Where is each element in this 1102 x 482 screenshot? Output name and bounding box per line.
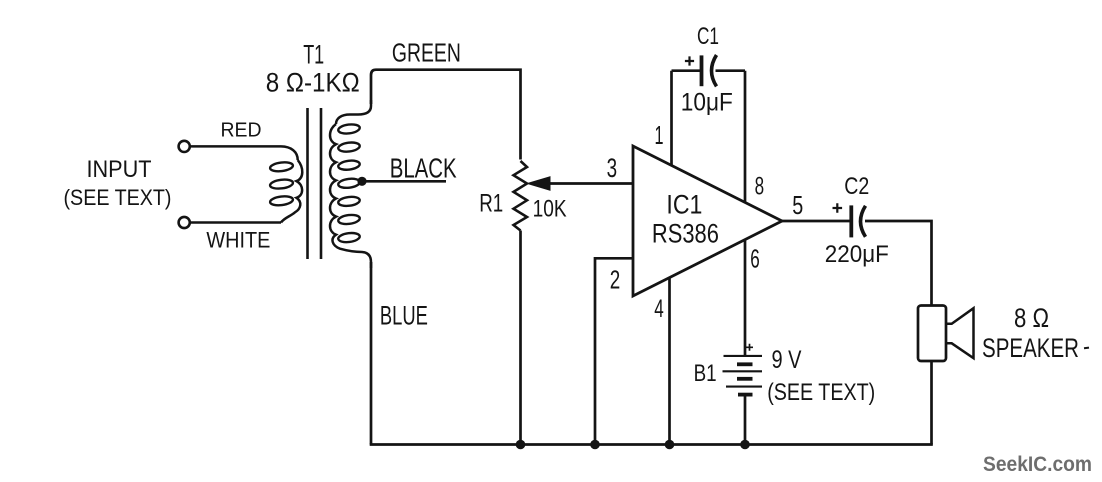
junction (R1 to rail) <box>516 440 526 450</box>
pin 4 label <box>654 295 664 323</box>
transformer T1 primary winding <box>270 146 303 222</box>
input terminal J1 (top) <box>179 141 190 152</box>
svg-text:2: 2 <box>610 265 621 295</box>
svg-text:IC1: IC1 <box>666 189 702 219</box>
label BLACK <box>390 153 457 184</box>
svg-text:(SEE TEXT): (SEE TEXT) <box>767 379 875 406</box>
pin 1 wire <box>670 71 673 166</box>
wire (speaker to ground rail) <box>930 361 933 445</box>
capacitor C1 plates <box>702 55 717 86</box>
label (SEE TEXT) <box>767 379 875 406</box>
speaker frame <box>918 306 946 362</box>
svg-text:T1: T1 <box>303 39 324 69</box>
pin 2 wire <box>595 258 633 444</box>
wire (C1 to pin 8) <box>716 69 746 72</box>
label T1 <box>303 39 324 69</box>
svg-text:6: 6 <box>750 243 760 273</box>
junction (pin 4 to rail) <box>665 440 675 450</box>
B1 polarity + <box>746 344 753 351</box>
svg-text:BLUE: BLUE <box>380 300 428 330</box>
input terminal J2 (bottom) <box>179 217 190 228</box>
label 10μF <box>681 89 733 117</box>
svg-text:INPUT: INPUT <box>87 156 152 183</box>
op-amp IC1 RS386 triangle <box>633 146 782 296</box>
label GREEN <box>392 37 461 67</box>
speaker horn <box>946 308 974 358</box>
wire BLUE (secondary bottom to ground rail) <box>370 262 373 445</box>
svg-text:8: 8 <box>755 173 765 201</box>
label RS386 <box>652 218 719 248</box>
junction (center tap) <box>357 177 366 186</box>
wire GREEN (secondary top to R1 top) <box>371 70 521 160</box>
svg-text:R1: R1 <box>479 189 503 217</box>
wire <box>190 221 281 224</box>
svg-text:9 V: 9 V <box>772 346 802 374</box>
svg-text:4: 4 <box>654 295 664 323</box>
resistor R1 (potentiometer element) <box>514 161 528 231</box>
wire (R1 bottom to ground rail) <box>519 231 522 445</box>
battery B1 plates <box>723 356 763 395</box>
svg-text:8 Ω: 8 Ω <box>1014 303 1049 333</box>
label C1 <box>697 23 719 50</box>
svg-text:8 Ω-1KΩ: 8 Ω-1KΩ <box>266 68 360 98</box>
svg-text:5: 5 <box>792 190 803 220</box>
label SPEAKER <box>982 333 1079 363</box>
C1 polarity + <box>685 56 694 65</box>
label 10K <box>533 195 567 222</box>
junction (B1 to rail) <box>740 440 750 450</box>
label INPUT (SEE TEXT) <box>64 156 172 210</box>
pin 4 wire <box>668 279 671 445</box>
label 8Ω <box>1014 303 1049 333</box>
label C2 <box>844 173 869 200</box>
wiper arrow of R1 <box>528 177 551 190</box>
mark after SPEAKER <box>1084 347 1089 350</box>
pin 2 label <box>610 265 621 295</box>
svg-text:1: 1 <box>655 120 664 150</box>
svg-text:B1: B1 <box>694 360 717 387</box>
pin 3 label <box>607 153 618 183</box>
svg-text:C2: C2 <box>844 173 869 200</box>
label RED <box>221 120 262 142</box>
ground rail wire <box>370 443 933 446</box>
svg-text:SeekIC.com: SeekIC.com <box>983 452 1092 476</box>
pin 8 label <box>755 173 765 201</box>
pin 1 label <box>655 120 664 150</box>
watermark SeekIC.com <box>983 452 1092 476</box>
pin 5 wire (output to C2) <box>782 220 851 223</box>
label R1 <box>479 189 503 217</box>
label B1 <box>694 360 717 387</box>
label WHITE <box>206 228 270 253</box>
pin 8 wire <box>744 71 747 203</box>
junction (pin 2 to rail) <box>590 440 600 450</box>
svg-text:SPEAKER: SPEAKER <box>982 333 1079 363</box>
wire <box>190 145 281 148</box>
label BLUE <box>380 300 428 330</box>
label 220μF <box>825 241 889 268</box>
transformer T1 core <box>308 108 322 259</box>
svg-text:C1: C1 <box>697 23 719 50</box>
svg-text:220μF: 220μF <box>825 241 889 268</box>
svg-text:BLACK: BLACK <box>390 153 457 184</box>
C2 polarity + <box>833 203 843 213</box>
capacitor C2 plates <box>851 205 865 237</box>
wire (wiper to pin 3) <box>548 182 633 185</box>
label 8Ω-1KΩ <box>266 68 360 98</box>
transformer T1 secondary winding <box>330 100 371 268</box>
svg-text:10K: 10K <box>533 195 567 222</box>
label IC1 <box>666 189 702 219</box>
svg-text:RS386: RS386 <box>652 218 719 248</box>
svg-text:3: 3 <box>607 153 618 183</box>
label 9 V <box>772 346 802 374</box>
svg-text:GREEN: GREEN <box>392 37 461 67</box>
pin 5 label <box>792 190 803 220</box>
svg-text:WHITE: WHITE <box>206 228 270 253</box>
wire (C2 to speaker) <box>865 221 932 306</box>
pin 6 label <box>750 243 760 273</box>
wire BLACK (center tap lead) <box>362 180 446 183</box>
svg-text:10μF: 10μF <box>681 89 733 117</box>
pin 6 wire <box>744 240 747 356</box>
svg-text:RED: RED <box>221 120 262 142</box>
svg-text:(SEE TEXT): (SEE TEXT) <box>64 185 172 210</box>
wire (pin1 to C1) <box>672 69 701 72</box>
wire (B1 to ground rail) <box>744 395 747 445</box>
